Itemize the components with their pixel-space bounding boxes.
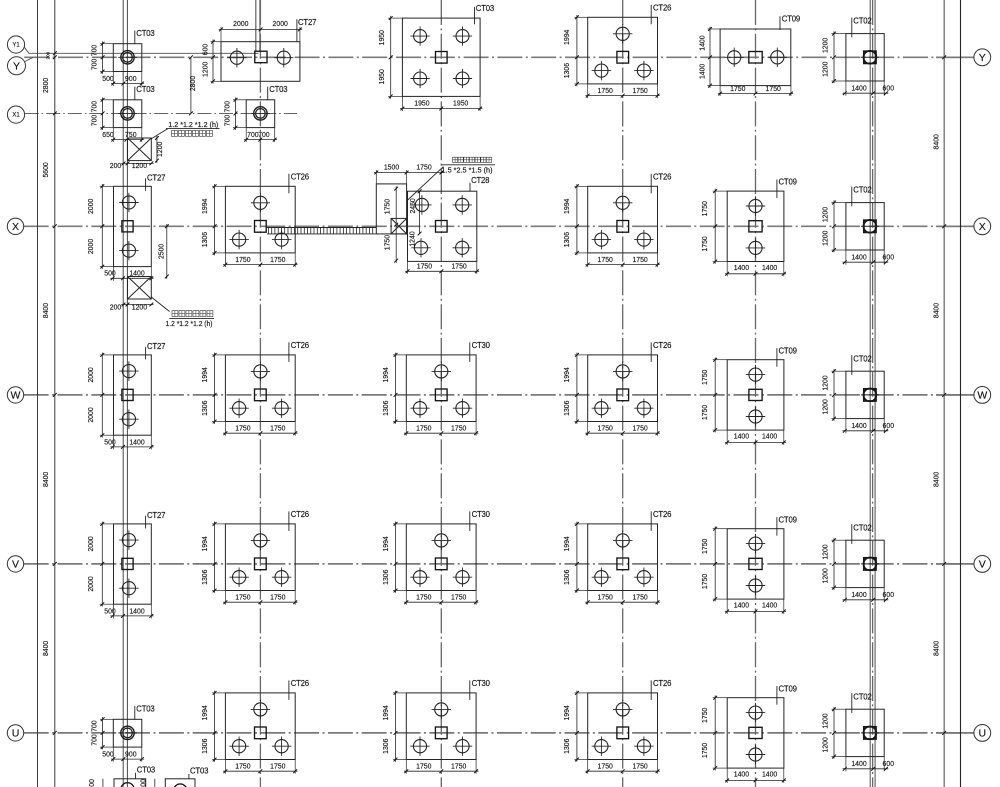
foundation CT09 (col5 x X) (727, 191, 784, 261)
svg-text:500: 500 (102, 74, 114, 83)
svg-text:1994: 1994 (200, 367, 209, 382)
wall line col1 right (126, 0, 128, 787)
svg-text:1750: 1750 (700, 708, 709, 723)
svg-text:1400: 1400 (698, 35, 707, 50)
axis bubble X (right) (974, 218, 991, 235)
svg-text:CT09: CT09 (779, 684, 797, 693)
axis line W (24, 394, 974, 396)
axis bubble X (left) (7, 218, 23, 234)
right dimension chain line (943, 0, 945, 787)
svg-text:CT03: CT03 (137, 765, 155, 774)
foundation CT26 (col4 x X) (588, 186, 658, 253)
svg-text:CT03: CT03 (136, 29, 154, 38)
svg-text:500: 500 (102, 750, 114, 759)
svg-text:1750: 1750 (766, 84, 781, 93)
svg-text:1750: 1750 (416, 163, 431, 172)
axis bubble W (left) (7, 387, 23, 403)
svg-text:1200: 1200 (821, 544, 830, 559)
svg-text:1306: 1306 (562, 63, 571, 78)
svg-text:1306: 1306 (562, 401, 571, 416)
svg-text:1750: 1750 (700, 405, 709, 420)
svg-text:CT27: CT27 (298, 18, 316, 27)
svg-text:1994: 1994 (381, 536, 390, 551)
foundation CT30 (col3 x W) (406, 355, 476, 422)
foundation CT03 partial (col1 bottom) (114, 779, 146, 787)
svg-text:1.2 *1.2 *1.2 (h): 1.2 *1.2 *1.2 (h) (166, 319, 213, 328)
svg-text:U: U (979, 728, 987, 740)
svg-text:X1: X1 (12, 113, 20, 119)
column axis line 4 (622, 0, 624, 787)
axis bubble 1/X (left) (7, 106, 24, 123)
svg-text:1750: 1750 (700, 370, 709, 385)
svg-text:CT02: CT02 (853, 354, 871, 363)
svg-text:1950: 1950 (377, 69, 386, 84)
foundation CT03 (col3 x Y) (402, 18, 480, 96)
svg-text:700: 700 (90, 101, 99, 113)
svg-text:CT30: CT30 (472, 679, 491, 688)
right boundary line (960, 0, 962, 787)
svg-text:1240: 1240 (408, 231, 417, 246)
svg-text:CT02: CT02 (853, 523, 871, 532)
svg-text:CT26: CT26 (653, 4, 671, 13)
svg-text:1750: 1750 (598, 86, 613, 95)
svg-text:CT28: CT28 (471, 176, 489, 185)
column axis line 2 (259, 0, 261, 787)
svg-text:CT03: CT03 (476, 4, 494, 13)
foundation CT26 (col4 x Y) (588, 17, 658, 84)
svg-text:1994: 1994 (562, 199, 571, 214)
axis bubble U (left) (7, 725, 23, 741)
svg-text:700: 700 (90, 734, 99, 746)
svg-text:700: 700 (87, 779, 96, 787)
left dimension chain line (54, 0, 56, 787)
svg-text:1750: 1750 (598, 593, 613, 602)
svg-text:700: 700 (90, 720, 99, 732)
svg-text:1306: 1306 (562, 232, 571, 247)
svg-text:2000: 2000 (86, 536, 95, 551)
svg-text:1750: 1750 (270, 424, 285, 433)
left boundary line (37, 0, 39, 787)
foundation CT02 (col6 x Y) (846, 34, 884, 81)
svg-text:1400: 1400 (762, 263, 777, 272)
svg-text:CT30: CT30 (472, 510, 491, 519)
svg-text:1306: 1306 (381, 570, 390, 585)
svg-text:1950: 1950 (414, 99, 429, 108)
svg-text:W: W (977, 390, 987, 402)
foundation CT09 (col5 x U) (727, 698, 784, 768)
sump pit C outline (car-ramp sump at col3 x X) (376, 184, 406, 234)
svg-text:8400: 8400 (931, 303, 940, 318)
svg-text:1400: 1400 (851, 252, 866, 261)
svg-text:1750: 1750 (632, 593, 647, 602)
svg-text:600: 600 (883, 421, 895, 430)
svg-text:700: 700 (223, 101, 232, 113)
svg-text:CT26: CT26 (291, 679, 309, 688)
svg-text:1750: 1750 (416, 424, 431, 433)
axis line 1/Y (29, 52, 259, 54)
svg-text:1.2 *1.2 *1.2 (h): 1.2 *1.2 *1.2 (h) (168, 120, 218, 129)
svg-text:1950: 1950 (453, 99, 468, 108)
svg-text:X: X (12, 221, 19, 233)
svg-text:600: 600 (883, 252, 895, 261)
svg-text:1200: 1200 (132, 161, 147, 170)
svg-text:2450: 2450 (408, 198, 417, 213)
svg-text:1750: 1750 (632, 255, 647, 264)
column axis line 6 (872, 0, 874, 787)
svg-text:1750: 1750 (416, 762, 431, 771)
svg-text:1200: 1200 (821, 713, 830, 728)
foundation CT02 (col6 x U) (846, 709, 884, 756)
svg-text:1400: 1400 (734, 432, 749, 441)
wall line col2 (top) left (255, 0, 257, 52)
svg-text:1994: 1994 (562, 367, 571, 382)
sump pit B leader and label (151, 297, 169, 312)
svg-text:8400: 8400 (931, 134, 940, 149)
svg-text:500: 500 (104, 437, 116, 446)
svg-text:1400: 1400 (734, 263, 749, 272)
svg-text:2000: 2000 (86, 199, 95, 214)
sump pit A (basement sump below 1/X on col1) (128, 138, 152, 161)
svg-text:CT26: CT26 (653, 510, 671, 519)
svg-text:1994: 1994 (200, 705, 209, 720)
axis line Y (24, 56, 974, 58)
svg-text:1750: 1750 (632, 424, 647, 433)
axis bubble Y (right) (974, 49, 991, 66)
svg-text:1750: 1750 (730, 84, 745, 93)
svg-text:CT02: CT02 (853, 17, 871, 26)
svg-text:1306: 1306 (200, 401, 209, 416)
svg-text:1950: 1950 (377, 30, 386, 45)
foundation CT26 (col4 x V) (588, 524, 658, 591)
wall line col6 left (869, 0, 871, 787)
svg-text:CT26: CT26 (291, 341, 309, 350)
svg-text:2800: 2800 (188, 76, 197, 91)
foundation CT30 (col3 x U) (406, 693, 476, 760)
svg-text:CT03: CT03 (269, 85, 287, 94)
svg-text:CT09: CT09 (779, 178, 797, 187)
svg-text:1750: 1750 (451, 262, 466, 271)
svg-text:1306: 1306 (562, 739, 571, 754)
svg-text:1200: 1200 (821, 62, 830, 77)
svg-text:500: 500 (104, 269, 116, 278)
svg-text:600: 600 (883, 759, 895, 768)
svg-text:1994: 1994 (562, 536, 571, 551)
svg-text:1750: 1750 (598, 255, 613, 264)
svg-text:V: V (12, 559, 19, 571)
svg-text:1750: 1750 (382, 199, 391, 214)
svg-text:700: 700 (139, 779, 148, 787)
svg-text:CT27: CT27 (147, 342, 165, 351)
column axis line 5 (755, 0, 757, 787)
svg-text:2000: 2000 (273, 19, 288, 28)
svg-text:U: U (12, 728, 20, 740)
foundation CT09 (col5 x V) (727, 529, 784, 599)
svg-text:1400: 1400 (851, 759, 866, 768)
svg-text:1200: 1200 (821, 231, 830, 246)
svg-text:1750: 1750 (700, 539, 709, 554)
foundation CT28 (col3 x X) (408, 191, 477, 261)
svg-text:CT27: CT27 (147, 511, 165, 520)
foundation CT26 (col2 x W) (225, 355, 295, 422)
foundation CT26 (col2 x X) (225, 186, 295, 253)
svg-text:1200: 1200 (155, 142, 164, 157)
svg-text:1500: 1500 (384, 163, 399, 172)
svg-text:1400: 1400 (762, 601, 777, 610)
ramp retaining wall (hatched strip on X axis) (267, 227, 376, 229)
svg-text:2000: 2000 (86, 576, 95, 591)
svg-text:CT26: CT26 (653, 679, 671, 688)
sump pit B (basement sump below X on col1) (128, 277, 152, 300)
svg-text:CT26: CT26 (653, 173, 671, 182)
svg-text:500: 500 (104, 606, 116, 615)
svg-text:1994: 1994 (562, 30, 571, 45)
svg-text:X: X (979, 221, 986, 233)
svg-text:1750: 1750 (451, 424, 466, 433)
svg-text:600: 600 (883, 83, 895, 92)
foundation CT26 (col2 x V) (225, 524, 295, 591)
svg-text:1400: 1400 (851, 421, 866, 430)
svg-text:1750: 1750 (235, 424, 250, 433)
svg-text:Y1: Y1 (12, 43, 20, 49)
svg-text:600: 600 (201, 44, 210, 56)
axis bubble V (right) (974, 556, 991, 573)
svg-text:1750: 1750 (417, 262, 432, 271)
svg-text:1750: 1750 (416, 593, 431, 602)
axis line U (24, 732, 974, 734)
svg-text:1750: 1750 (235, 593, 250, 602)
svg-text:CT27: CT27 (147, 173, 165, 182)
foundation CT03 (col2 x 1/X) (246, 100, 275, 128)
axis bubble 1/Y (left) (7, 36, 24, 53)
svg-text:Y: Y (979, 52, 986, 64)
svg-text:1750: 1750 (700, 201, 709, 216)
svg-text:1306: 1306 (562, 570, 571, 585)
svg-text:8400: 8400 (41, 641, 50, 656)
svg-text:1200: 1200 (821, 737, 830, 752)
svg-text:1994: 1994 (381, 367, 390, 382)
svg-text:1200: 1200 (132, 302, 147, 311)
foundation CT26 (col4 x W) (588, 355, 658, 422)
svg-text:CT09: CT09 (782, 15, 800, 24)
svg-text:CT26: CT26 (291, 510, 309, 519)
svg-text:1400: 1400 (734, 770, 749, 779)
svg-text:1400: 1400 (851, 83, 866, 92)
svg-text:1750: 1750 (270, 762, 285, 771)
axis bubble W (right) (974, 387, 991, 404)
dim 2800 between Y and 1/X (190, 57, 192, 113)
svg-text:1994: 1994 (200, 536, 209, 551)
svg-text:1400: 1400 (698, 64, 707, 79)
svg-text:2000: 2000 (86, 367, 95, 382)
foundation CT27 (col2 x Y) (221, 42, 300, 82)
svg-text:1750: 1750 (270, 593, 285, 602)
svg-text:V: V (979, 559, 986, 571)
svg-text:1400: 1400 (762, 432, 777, 441)
svg-text:200: 200 (110, 161, 122, 170)
svg-text:8400: 8400 (931, 641, 940, 656)
svg-text:1750: 1750 (598, 424, 613, 433)
svg-text:1750: 1750 (700, 743, 709, 758)
svg-text:1.5 *2.5 *1.5 (h): 1.5 *2.5 *1.5 (h) (442, 166, 493, 175)
foundation CT09 (col5 x Y) (720, 29, 791, 86)
svg-text:1306: 1306 (200, 570, 209, 585)
column axis line 3 (440, 0, 442, 787)
svg-text:1994: 1994 (381, 705, 390, 720)
svg-text:CT26: CT26 (653, 341, 671, 350)
foundation CT26 (col4 x U) (588, 693, 658, 760)
foundation CT03 (col1 x Y) (113, 44, 142, 72)
axis bubble U (right) (974, 725, 991, 742)
svg-text:2000: 2000 (233, 19, 248, 28)
svg-text:CT03: CT03 (136, 705, 154, 714)
svg-text:700: 700 (247, 130, 259, 139)
svg-text:8400: 8400 (41, 303, 50, 318)
foundation CT03 (col1 x 1/X) (113, 100, 142, 128)
svg-text:700: 700 (90, 115, 99, 127)
svg-text:1306: 1306 (381, 401, 390, 416)
foundation CT02 (col6 x X) (846, 203, 884, 250)
foundation CT03 (col1 x U) (113, 719, 142, 747)
foundation CT03 partial (bottom, right of col1) (165, 779, 195, 787)
sump pit C hatched box (391, 218, 407, 234)
svg-text:1750: 1750 (235, 255, 250, 264)
svg-text:CT30: CT30 (472, 341, 491, 350)
svg-text:1400: 1400 (129, 606, 144, 615)
svg-text:700: 700 (90, 45, 99, 57)
svg-text:8400: 8400 (41, 472, 50, 487)
svg-text:900: 900 (125, 74, 137, 83)
svg-text:1400: 1400 (129, 437, 144, 446)
left dim ticks and spacing texts (53, 51, 57, 55)
svg-text:1400: 1400 (762, 770, 777, 779)
svg-text:1750: 1750 (235, 762, 250, 771)
svg-text:1200: 1200 (821, 399, 830, 414)
svg-text:700: 700 (223, 115, 232, 127)
svg-text:1306: 1306 (381, 739, 390, 754)
svg-text:CT09: CT09 (779, 346, 797, 355)
svg-text:1750: 1750 (451, 762, 466, 771)
svg-text:Y: Y (13, 60, 20, 72)
svg-text:1200: 1200 (821, 375, 830, 390)
svg-text:1750: 1750 (382, 235, 391, 250)
foundation CT26 (col2 x U) (225, 693, 295, 760)
svg-text:1750: 1750 (270, 255, 285, 264)
svg-text:5600: 5600 (41, 162, 50, 177)
svg-text:900: 900 (125, 750, 137, 759)
svg-text:200: 200 (46, 51, 51, 59)
svg-text:CT02: CT02 (853, 692, 871, 701)
svg-text:2500: 2500 (157, 244, 166, 259)
svg-text:1750: 1750 (700, 574, 709, 589)
foundation CT30 (col3 x V) (406, 524, 476, 591)
svg-text:1200: 1200 (821, 38, 830, 53)
svg-text:1400: 1400 (734, 601, 749, 610)
svg-text:1400: 1400 (851, 590, 866, 599)
svg-text:200: 200 (110, 302, 122, 311)
svg-text:600: 600 (883, 590, 895, 599)
foundation CT09 (col5 x W) (727, 360, 784, 430)
svg-text:1750: 1750 (451, 593, 466, 602)
svg-text:700: 700 (90, 59, 99, 71)
sump pit A leader and label (151, 129, 168, 139)
svg-text:650: 650 (102, 130, 114, 139)
wall line col6 right (874, 0, 876, 787)
svg-text:1200: 1200 (201, 62, 210, 77)
right dim ticks and spacing texts (942, 55, 946, 59)
svg-text:8400: 8400 (931, 472, 940, 487)
axis bubble Y (left) (8, 57, 26, 75)
axis line X (24, 225, 974, 227)
wall line col1 left (122, 0, 124, 787)
axis bubble V (left) (7, 556, 23, 572)
svg-text:2000: 2000 (86, 239, 95, 254)
svg-text:CT03: CT03 (190, 767, 208, 776)
svg-text:1200: 1200 (821, 207, 830, 222)
svg-text:1200: 1200 (821, 568, 830, 583)
svg-text:CT02: CT02 (853, 186, 871, 195)
foundation CT27 (col1 x X) (114, 186, 152, 266)
svg-text:1994: 1994 (562, 705, 571, 720)
svg-text:1994: 1994 (200, 199, 209, 214)
svg-text:2000: 2000 (86, 407, 95, 422)
foundation CT02 (col6 x V) (846, 540, 884, 587)
svg-text:1306: 1306 (200, 739, 209, 754)
foundation CT02 (col6 x W) (846, 371, 884, 418)
foundation CT27 (col1 x V) (114, 524, 152, 604)
svg-text:CT09: CT09 (779, 515, 797, 524)
svg-text:1750: 1750 (632, 86, 647, 95)
svg-text:1750: 1750 (598, 762, 613, 771)
axis line 1/X (25, 112, 297, 114)
svg-text:CT26: CT26 (291, 173, 309, 182)
svg-text:CT03: CT03 (136, 85, 154, 94)
svg-text:1750: 1750 (632, 762, 647, 771)
svg-text:W: W (11, 390, 21, 402)
svg-text:2800: 2800 (41, 78, 50, 93)
axis line V (24, 563, 974, 565)
wall line col2 (top) right (259, 0, 261, 52)
svg-text:1750: 1750 (700, 236, 709, 251)
foundation CT27 (col1 x W) (114, 355, 152, 435)
sump pit C leader and label (407, 167, 444, 201)
svg-text:700: 700 (258, 130, 270, 139)
svg-text:1306: 1306 (200, 232, 209, 247)
